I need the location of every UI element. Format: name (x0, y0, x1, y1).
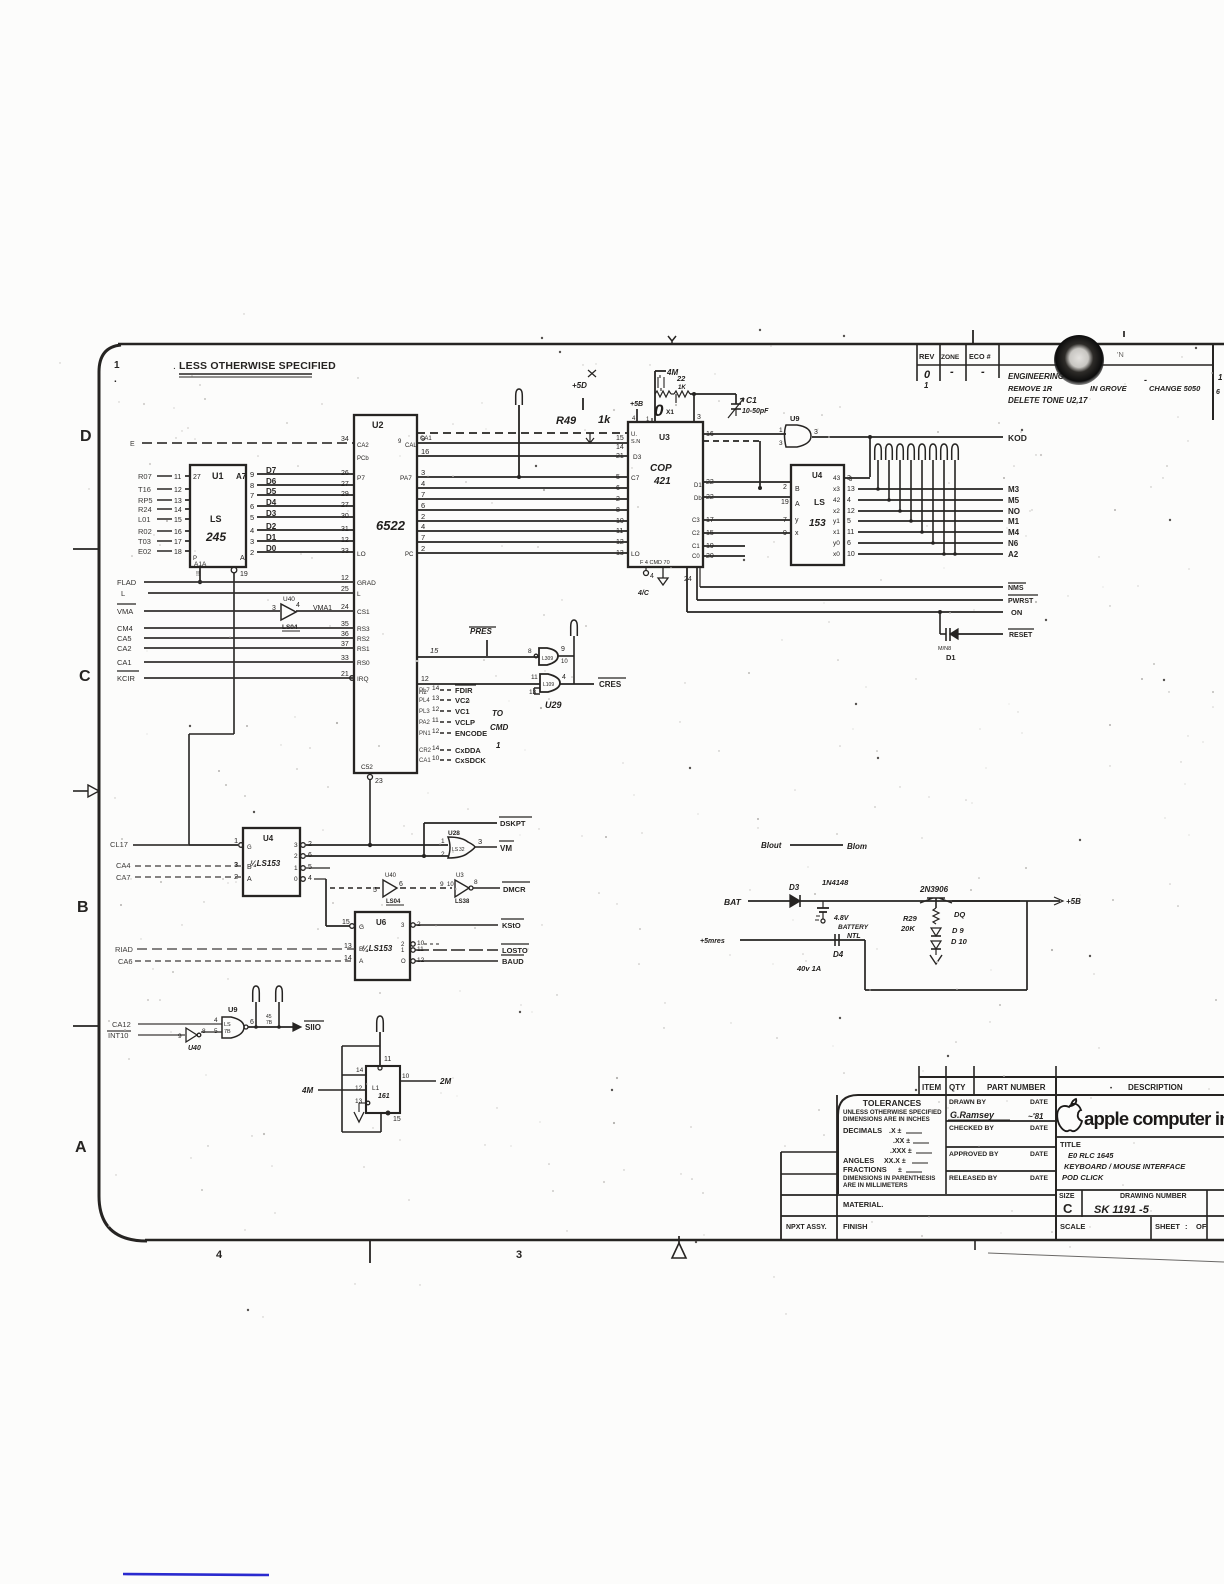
svg-text:15: 15 (393, 1116, 401, 1123)
svg-text:15: 15 (430, 646, 439, 655)
svg-text:D3: D3 (789, 883, 800, 892)
svg-text:RS2: RS2 (357, 636, 370, 643)
svg-text:CA12: CA12 (112, 1020, 131, 1029)
svg-text:C: C (79, 668, 91, 685)
svg-text:L01: L01 (138, 515, 151, 524)
svg-text:VCLP: VCLP (455, 718, 475, 727)
svg-text:CR2: CR2 (419, 748, 432, 754)
svg-text:U4: U4 (812, 471, 823, 480)
svg-text:LO: LO (631, 551, 640, 558)
svg-text:6: 6 (250, 1019, 254, 1026)
svg-text:KCIR: KCIR (117, 674, 136, 683)
svg-text:CxSDCK: CxSDCK (455, 756, 486, 765)
svg-text:1: 1 (924, 381, 929, 390)
svg-text:5: 5 (214, 1028, 218, 1035)
svg-text:-: - (981, 366, 985, 378)
svg-text:U29: U29 (545, 700, 562, 710)
svg-text:CL17: CL17 (110, 840, 128, 849)
svg-text:4: 4 (421, 479, 425, 488)
svg-text:1: 1 (496, 741, 501, 750)
svg-text:10: 10 (561, 659, 568, 665)
svg-text:CA6: CA6 (118, 957, 133, 966)
svg-text:7: 7 (421, 490, 425, 499)
svg-text:10: 10 (847, 551, 855, 558)
svg-text:0: 0 (294, 876, 298, 883)
svg-text:BATTERY: BATTERY (838, 924, 869, 931)
svg-text:9: 9 (440, 881, 444, 888)
svg-text:3: 3 (814, 429, 818, 436)
svg-text:NTL: NTL (847, 933, 861, 940)
svg-text:5: 5 (250, 513, 254, 522)
svg-text:RESET: RESET (1009, 632, 1033, 639)
svg-text:PC: PC (405, 552, 414, 558)
svg-text:4/C: 4/C (637, 590, 650, 597)
svg-text:P7: P7 (357, 475, 365, 482)
svg-text:NPXT ASSY.: NPXT ASSY. (786, 1224, 827, 1231)
svg-text:14: 14 (344, 955, 352, 962)
svg-text:CxDDA: CxDDA (455, 746, 481, 755)
svg-text:NO: NO (1008, 507, 1020, 516)
svg-text:2: 2 (421, 512, 425, 521)
svg-text:6: 6 (616, 485, 620, 492)
svg-text:10: 10 (447, 882, 454, 888)
svg-text:4: 4 (296, 602, 300, 609)
svg-text:13: 13 (847, 486, 855, 493)
svg-text:ON: ON (1011, 608, 1022, 617)
svg-text:33: 33 (341, 655, 349, 662)
svg-text:3: 3 (478, 837, 482, 846)
svg-text:4: 4 (216, 1249, 223, 1261)
svg-text:D7: D7 (266, 466, 277, 475)
svg-text:'N: 'N (1117, 350, 1124, 359)
svg-text:7B: 7B (266, 1020, 273, 1026)
svg-text:13: 13 (616, 550, 624, 557)
svg-text:13: 13 (174, 498, 182, 505)
svg-text:LS: LS (224, 1022, 231, 1028)
svg-text:8: 8 (250, 481, 254, 490)
svg-text:RS1: RS1 (357, 646, 370, 653)
svg-text:161: 161 (378, 1093, 390, 1100)
svg-text:1: 1 (114, 360, 120, 371)
svg-text:7: 7 (250, 491, 254, 500)
svg-text:VMA: VMA (117, 607, 133, 616)
svg-text:27: 27 (193, 474, 201, 481)
svg-text:245: 245 (205, 530, 226, 544)
svg-text:CHANGE 5050: CHANGE 5050 (1149, 384, 1201, 393)
svg-text:13: 13 (529, 689, 537, 696)
svg-text:12: 12 (355, 1085, 363, 1092)
svg-text:O: O (401, 959, 406, 965)
svg-text:CA1: CA1 (419, 758, 431, 764)
svg-text:CA1: CA1 (117, 658, 132, 667)
svg-text:D 10: D 10 (951, 937, 968, 946)
svg-text:U40: U40 (385, 873, 397, 879)
svg-text:2: 2 (250, 548, 254, 557)
svg-text:6: 6 (250, 502, 254, 511)
svg-text:LS04: LS04 (386, 899, 401, 905)
svg-text:VMA1: VMA1 (313, 605, 332, 612)
svg-text:37: 37 (341, 641, 349, 648)
svg-text:KStO: KStO (502, 921, 521, 930)
svg-text:27: 27 (341, 502, 349, 509)
svg-text:C: C (1063, 1201, 1073, 1216)
svg-text:B: B (359, 946, 363, 953)
svg-text:UNLESS OTHERWISE SPECIFIED: UNLESS OTHERWISE SPECIFIED (843, 1109, 942, 1116)
svg-text:DRAWING NUMBER: DRAWING NUMBER (1120, 1193, 1187, 1200)
svg-text:D: D (80, 428, 92, 445)
svg-text:±: ± (898, 1167, 902, 1174)
svg-text:B: B (247, 864, 252, 871)
svg-text:U3: U3 (456, 873, 464, 879)
svg-text:D3: D3 (633, 454, 642, 461)
svg-text:3: 3 (421, 468, 425, 477)
svg-text:D 9: D 9 (952, 926, 965, 935)
svg-text:14: 14 (356, 1067, 364, 1074)
svg-text:E: E (130, 441, 135, 448)
svg-text:1: 1 (294, 865, 298, 872)
svg-text:29: 29 (341, 491, 349, 498)
svg-text:13: 13 (344, 943, 352, 950)
svg-text:LO: LO (357, 551, 366, 558)
svg-text:12: 12 (174, 487, 182, 494)
svg-text:M1: M1 (1008, 517, 1020, 526)
svg-text:x: x (795, 530, 799, 537)
svg-text:1: 1 (1218, 373, 1223, 382)
svg-text:31: 31 (341, 526, 349, 533)
svg-text:A2: A2 (1008, 550, 1019, 559)
svg-text:y1: y1 (833, 518, 840, 525)
svg-text:x3: x3 (833, 486, 840, 493)
svg-text:M5: M5 (1008, 496, 1020, 505)
svg-text:7: 7 (421, 533, 425, 542)
svg-text:8: 8 (528, 648, 532, 655)
svg-text:C52: C52 (361, 764, 373, 771)
svg-text:U40: U40 (188, 1045, 201, 1052)
svg-text:DECIMALS: DECIMALS (843, 1126, 882, 1135)
svg-text:CA2: CA2 (357, 443, 369, 449)
svg-text:.X ±: .X ± (889, 1128, 902, 1135)
svg-text:SK 1191 -5: SK 1191 -5 (1094, 1204, 1150, 1216)
svg-text:3: 3 (697, 414, 701, 421)
svg-text:A1A: A1A (194, 561, 207, 568)
svg-text:DATE: DATE (1030, 1125, 1048, 1132)
svg-text:2: 2 (294, 853, 298, 860)
svg-text:1: 1 (234, 836, 238, 845)
svg-text:10: 10 (402, 1073, 410, 1080)
svg-text:D6: D6 (266, 477, 277, 486)
svg-text:VC2: VC2 (455, 696, 470, 705)
svg-text:CA1: CA1 (420, 436, 432, 442)
svg-text:ANGLES: ANGLES (843, 1156, 874, 1165)
svg-text:5: 5 (616, 474, 620, 481)
svg-text:3: 3 (250, 537, 254, 546)
svg-text:apple computer in: apple computer in (1084, 1108, 1224, 1129)
svg-text:4: 4 (847, 497, 851, 504)
svg-text:U6: U6 (376, 918, 387, 927)
svg-text:12: 12 (341, 537, 349, 544)
svg-text:22: 22 (676, 374, 686, 383)
svg-text:CMD: CMD (490, 723, 508, 732)
svg-text:DELETE TONE U2,17: DELETE TONE U2,17 (1008, 396, 1088, 405)
svg-text:RELEASED BY: RELEASED BY (949, 1175, 998, 1182)
svg-text:U.: U. (631, 432, 637, 438)
svg-text:14: 14 (174, 507, 182, 514)
svg-text:CA5: CA5 (117, 634, 132, 643)
svg-text:2: 2 (783, 484, 787, 491)
svg-text:FDIR: FDIR (455, 686, 473, 695)
svg-text:LOSTO: LOSTO (502, 946, 528, 955)
svg-text:D4: D4 (833, 950, 844, 959)
svg-text:RS3: RS3 (357, 626, 370, 633)
svg-text:12: 12 (432, 728, 440, 735)
svg-text:FLAD: FLAD (117, 578, 137, 587)
svg-text:1k: 1k (598, 414, 611, 426)
svg-text:12: 12 (432, 706, 440, 713)
svg-text:SHEET: SHEET (1155, 1222, 1180, 1231)
svg-text:U1: U1 (212, 471, 224, 481)
svg-text:.XXX ±: .XXX ± (890, 1148, 912, 1155)
svg-text:ENCODE: ENCODE (455, 729, 487, 738)
svg-text:6522: 6522 (376, 518, 406, 533)
svg-text:IN GROVE: IN GROVE (1090, 384, 1128, 393)
svg-text:!!: !! (196, 571, 200, 578)
svg-text:M4: M4 (1008, 528, 1020, 537)
svg-text:G.Ramsey: G.Ramsey (950, 1110, 995, 1120)
svg-text:21: 21 (341, 671, 349, 678)
svg-text:1: 1 (779, 427, 783, 434)
svg-text:KOD: KOD (1008, 433, 1027, 443)
svg-text:+5D: +5D (572, 381, 587, 390)
svg-text:y0: y0 (833, 540, 840, 547)
svg-text:ECO #: ECO # (969, 352, 991, 361)
svg-text:VC1: VC1 (455, 707, 470, 716)
svg-text:RS0: RS0 (357, 660, 370, 667)
svg-text:LS: LS (814, 497, 825, 507)
svg-text:DQ: DQ (954, 910, 965, 919)
svg-text:15: 15 (342, 919, 350, 926)
svg-text:0: 0 (924, 369, 931, 381)
svg-text:TITLE: TITLE (1060, 1140, 1081, 1149)
svg-text:2N3906: 2N3906 (919, 885, 949, 894)
svg-text:RP5: RP5 (138, 496, 153, 505)
svg-text:Blom: Blom (847, 842, 867, 851)
svg-text:4: 4 (650, 573, 654, 580)
svg-text:-: - (950, 366, 954, 378)
svg-text:421: 421 (653, 476, 671, 487)
svg-text:R49: R49 (556, 415, 577, 427)
svg-text:6: 6 (847, 540, 851, 547)
svg-text:x2: x2 (833, 508, 840, 515)
svg-text:COP: COP (650, 463, 672, 474)
svg-text:24: 24 (684, 576, 692, 583)
svg-text:4: 4 (214, 1017, 218, 1024)
svg-text:L309: L309 (542, 656, 553, 662)
svg-text:5: 5 (373, 887, 377, 894)
svg-text:14: 14 (616, 444, 624, 451)
svg-text:3: 3 (272, 605, 276, 612)
svg-text:¼LS153: ¼LS153 (362, 944, 393, 953)
svg-text:11: 11 (384, 1056, 391, 1063)
svg-text:33: 33 (341, 548, 349, 555)
svg-text:PCb: PCb (357, 456, 369, 462)
svg-text:C3: C3 (692, 518, 700, 524)
svg-text:153: 153 (809, 518, 826, 529)
svg-text:PN1: PN1 (419, 731, 431, 737)
svg-text:T03: T03 (138, 537, 151, 546)
svg-text:R29: R29 (903, 914, 918, 923)
svg-text:DATE: DATE (1030, 1099, 1048, 1106)
svg-text:¼LS153: ¼LS153 (250, 859, 281, 868)
svg-text:R24: R24 (138, 505, 152, 514)
svg-text:U3: U3 (659, 432, 670, 442)
svg-text:A: A (75, 1139, 87, 1156)
svg-text:VM: VM (500, 844, 512, 853)
svg-text:E02: E02 (138, 547, 151, 556)
svg-text:2M: 2M (439, 1077, 451, 1086)
svg-text:PA2: PA2 (419, 720, 431, 726)
svg-text:x1: x1 (833, 529, 840, 536)
svg-text:C1: C1 (692, 544, 700, 550)
svg-text:CM4: CM4 (117, 624, 133, 633)
svg-text:PA7: PA7 (400, 475, 412, 482)
svg-text:DATE: DATE (1030, 1175, 1048, 1182)
svg-text:OF: OF (1196, 1222, 1207, 1231)
svg-text:CAL: CAL (405, 443, 417, 449)
svg-text::: : (1185, 1222, 1188, 1231)
svg-text:C1: C1 (746, 395, 757, 405)
svg-text:REMOVE 1R: REMOVE 1R (1008, 384, 1053, 393)
svg-text:D1: D1 (266, 533, 277, 542)
svg-text:3: 3 (234, 860, 238, 869)
svg-text:1: 1 (441, 838, 445, 845)
svg-text:KEYBOARD / MOUSE INTERFACE: KEYBOARD / MOUSE INTERFACE (1064, 1162, 1186, 1171)
svg-text:7B: 7B (224, 1029, 231, 1035)
svg-text:11: 11 (616, 528, 623, 535)
svg-text:19: 19 (781, 499, 789, 506)
svg-text:LS04: LS04 (282, 624, 298, 631)
svg-text:TO: TO (492, 709, 504, 718)
svg-text:3: 3 (779, 440, 783, 447)
svg-text:CRES: CRES (599, 680, 622, 689)
svg-text:-: - (1144, 375, 1147, 385)
svg-text:21: 21 (616, 453, 624, 460)
svg-text:LS: LS (210, 514, 222, 524)
svg-text:SCALE: SCALE (1060, 1222, 1085, 1231)
svg-text:A: A (359, 958, 364, 965)
svg-text:18: 18 (174, 549, 182, 556)
svg-text:C2: C2 (692, 531, 700, 537)
svg-text:19: 19 (240, 571, 248, 578)
svg-text:CS1: CS1 (357, 609, 370, 616)
svg-text:+5B: +5B (630, 401, 643, 408)
svg-text:BAT: BAT (724, 897, 742, 907)
svg-text:LS38: LS38 (455, 899, 470, 905)
svg-text:+5B: +5B (1066, 897, 1081, 906)
svg-text:15: 15 (174, 517, 182, 524)
svg-text:D0: D0 (266, 544, 277, 553)
svg-text:2: 2 (441, 851, 445, 858)
svg-text:8: 8 (474, 879, 478, 886)
svg-text:DMCR: DMCR (503, 885, 526, 894)
svg-text:17: 17 (174, 539, 182, 546)
svg-text:E0 RLC 1645: E0 RLC 1645 (1068, 1151, 1114, 1160)
svg-text:36: 36 (341, 631, 349, 638)
svg-text:40v 1A: 40v 1A (796, 964, 821, 973)
svg-text:11: 11 (531, 674, 538, 681)
svg-text:B: B (77, 899, 89, 916)
svg-text:26: 26 (341, 470, 349, 477)
svg-text:3: 3 (294, 842, 298, 849)
svg-text:M3: M3 (1008, 485, 1020, 494)
svg-text:CA2: CA2 (117, 644, 132, 653)
svg-text:POD CLICK: POD CLICK (1062, 1173, 1104, 1182)
svg-text:S.N: S.N (631, 439, 640, 445)
svg-text:Blout: Blout (761, 841, 782, 850)
svg-text:ITEM: ITEM (922, 1083, 941, 1092)
svg-text:12: 12 (847, 508, 855, 515)
svg-text:4M: 4M (301, 1086, 313, 1095)
svg-text:DSKPT: DSKPT (500, 819, 526, 828)
svg-text:9: 9 (250, 470, 254, 479)
svg-text:Db: Db (694, 496, 702, 502)
svg-text:C0: C0 (692, 554, 700, 560)
svg-text:N6: N6 (1008, 539, 1019, 548)
svg-text:2: 2 (421, 544, 425, 553)
svg-text:F 4 CMD 70: F 4 CMD 70 (640, 560, 670, 566)
svg-text:16: 16 (421, 447, 429, 456)
svg-text:LESS OTHERWISE SPECIFIED: LESS OTHERWISE SPECIFIED (179, 360, 336, 372)
svg-text:~'81: ~'81 (1028, 1112, 1044, 1121)
svg-text:DATE: DATE (1030, 1151, 1048, 1158)
svg-text:6: 6 (399, 881, 403, 888)
svg-text:PRES: PRES (470, 627, 492, 636)
svg-text:30: 30 (341, 513, 349, 520)
svg-text:12: 12 (421, 676, 429, 683)
svg-text:C7: C7 (631, 475, 640, 482)
svg-text:PL4: PL4 (419, 698, 430, 704)
svg-text:11: 11 (847, 529, 854, 536)
svg-text:PART NUMBER: PART NUMBER (987, 1083, 1046, 1092)
svg-text:PL3: PL3 (419, 709, 430, 715)
svg-text:•: • (1110, 1086, 1112, 1092)
svg-text:SIIO: SIIO (305, 1023, 321, 1032)
svg-text:.: . (114, 374, 117, 385)
svg-text:DIMENSIONS IN PARENTHESIS: DIMENSIONS IN PARENTHESIS (843, 1175, 935, 1182)
svg-text:.XX ±: .XX ± (893, 1138, 910, 1145)
svg-text:20K: 20K (900, 924, 915, 933)
svg-text:SIZE: SIZE (1059, 1193, 1075, 1200)
svg-text:GRAD: GRAD (357, 580, 376, 587)
svg-text:R07: R07 (138, 472, 152, 481)
svg-text:12: 12 (341, 575, 349, 582)
svg-text:15: 15 (616, 435, 624, 442)
svg-text:G: G (247, 845, 252, 851)
svg-text:4.8V: 4.8V (833, 915, 850, 922)
svg-text:D1: D1 (946, 653, 956, 662)
svg-text:X1: X1 (666, 409, 674, 416)
svg-text:24: 24 (341, 604, 349, 611)
svg-text:DRAWN BY: DRAWN BY (949, 1099, 986, 1106)
svg-text:14: 14 (432, 745, 440, 752)
svg-text:4: 4 (562, 674, 566, 681)
svg-text:APPROVED BY: APPROVED BY (949, 1151, 999, 1158)
svg-text:ARE IN MILLIMETERS: ARE IN MILLIMETERS (843, 1182, 908, 1189)
svg-text:43: 43 (833, 475, 841, 482)
svg-text:0: 0 (654, 401, 664, 420)
svg-text:NMS: NMS (1008, 585, 1024, 592)
svg-text:11: 11 (432, 717, 439, 724)
svg-text:L109: L109 (543, 682, 554, 688)
